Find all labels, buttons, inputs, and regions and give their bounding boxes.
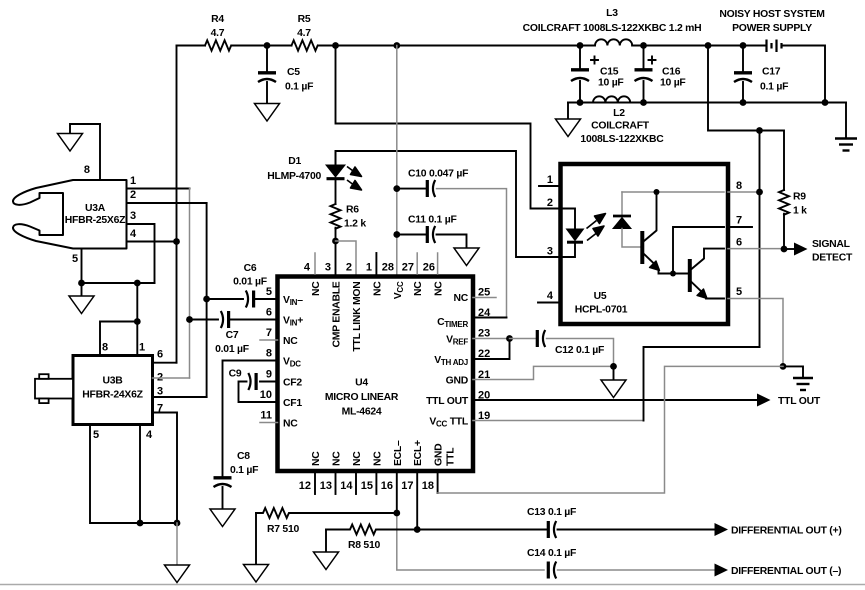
wire U5 pin 8 external (gray) <box>728 191 760 193</box>
node battery return <box>822 99 829 106</box>
earth ground right <box>835 103 857 151</box>
U4 pin 25 NC stub <box>473 297 496 299</box>
U5 pin numbers <box>547 174 742 302</box>
wire pin 24 CTIMER to C10 <box>473 317 507 319</box>
node C17 top <box>740 42 747 49</box>
svg-text:5: 5 <box>736 286 742 298</box>
node ECL- / R7 junction <box>393 510 400 517</box>
svg-text:6: 6 <box>736 237 742 249</box>
U4 left pin numbers <box>260 286 272 422</box>
svg-text:CMP ENABLE: CMP ENABLE <box>332 281 343 347</box>
wire U3A pin 2 riser <box>206 203 208 397</box>
svg-text:1008LS-122XKBC: 1008LS-122XKBC <box>580 134 664 145</box>
wire U5 pin 7 stub <box>728 226 752 228</box>
svg-text:DIFFERENTIAL OUT (+): DIFFERENTIAL OUT (+) <box>731 526 842 537</box>
node L3 left / C15 <box>577 42 584 49</box>
svg-text:0.1 µF: 0.1 µF <box>230 465 258 476</box>
node Vcc TTL tap <box>756 127 763 134</box>
capacitor C11 <box>397 215 467 249</box>
wire U3B pin 2 (gray) <box>153 377 190 379</box>
svg-text:1: 1 <box>547 174 553 186</box>
wire U3A pin 1 <box>127 188 190 190</box>
U5 pin 1 NC stub <box>539 185 561 187</box>
svg-text:C11 0.1 µF: C11 0.1 µF <box>408 215 457 226</box>
SIGNAL DETECT port arrow <box>784 239 853 264</box>
wire U5 pin 6 external (gray) <box>728 248 784 250</box>
svg-text:R6: R6 <box>346 205 359 216</box>
node VREF junction <box>506 335 513 342</box>
capacitor C16 <box>635 46 686 103</box>
node C12 ground junction <box>610 363 617 370</box>
svg-text:8: 8 <box>84 164 90 176</box>
wire R6 to TTL LINK MON pin 2 (gray) <box>336 241 357 277</box>
svg-text:C10 0.047 µF: C10 0.047 µF <box>408 169 468 180</box>
svg-text:6: 6 <box>157 349 163 361</box>
wire rail R5 to L3 <box>318 45 595 47</box>
svg-text:C13 0.1 µF: C13 0.1 µF <box>527 507 576 518</box>
svg-text:HCPL-0701: HCPL-0701 <box>575 305 628 316</box>
svg-text:4: 4 <box>130 228 137 240</box>
svg-text:R9: R9 <box>793 192 806 203</box>
svg-text:HLMP-4700: HLMP-4700 <box>267 171 321 182</box>
capacitor C12 <box>510 330 614 366</box>
resistor R7 <box>256 508 397 535</box>
svg-text:COILCRAFT 1008LS-122XKBC 1.2 m: COILCRAFT 1008LS-122XKBC 1.2 mH <box>523 23 702 34</box>
svg-text:8: 8 <box>266 348 272 360</box>
ground below C8 <box>210 509 235 527</box>
node C7 junction <box>186 316 193 323</box>
svg-text:NC: NC <box>311 451 322 466</box>
wire pin 23 VREF (gray) <box>473 338 510 340</box>
svg-text:CF2: CF2 <box>283 378 302 389</box>
svg-text:R4: R4 <box>211 14 224 25</box>
svg-text:4: 4 <box>304 262 311 274</box>
ground below C11 <box>454 248 479 266</box>
svg-text:1: 1 <box>139 342 145 354</box>
svg-text:7: 7 <box>266 327 272 339</box>
wire U3A pin 2 <box>127 202 207 204</box>
svg-text:11: 11 <box>260 410 272 422</box>
svg-text:0.01 µF: 0.01 µF <box>215 344 249 355</box>
earth ground near TTL OUT <box>783 366 813 390</box>
wire Vcc TTL vertical <box>759 131 761 348</box>
wire U3A pin 8 to ground <box>99 124 101 180</box>
svg-text:27: 27 <box>402 262 414 274</box>
svg-text:8: 8 <box>736 180 742 192</box>
wire GND TTL pin 18 route (gray) <box>438 366 783 493</box>
svg-text:4.7: 4.7 <box>211 28 225 39</box>
transistor Q1 <box>642 192 673 274</box>
wire U3A pin 3 <box>127 224 155 283</box>
svg-text:1: 1 <box>366 262 372 274</box>
svg-text:POWER SUPPLY: POWER SUPPLY <box>732 23 812 34</box>
svg-text:1.2 k: 1.2 k <box>344 219 366 230</box>
svg-text:10 µF: 10 µF <box>598 78 624 89</box>
U4 left pin labels <box>283 295 303 430</box>
svg-text:28: 28 <box>382 262 394 274</box>
svg-text:6: 6 <box>266 307 272 319</box>
svg-text:9: 9 <box>266 369 272 381</box>
wire U3A pin 1 riser (gray) <box>189 189 191 379</box>
svg-text:NC: NC <box>453 293 468 304</box>
node pin 5 ground junction <box>780 363 787 370</box>
svg-text:4: 4 <box>146 429 153 441</box>
svg-text:TTL LINK MON: TTL LINK MON <box>352 282 363 352</box>
svg-text:NC: NC <box>311 281 322 296</box>
svg-text:18: 18 <box>422 480 434 492</box>
node U3A pin 4 tap <box>173 238 180 245</box>
svg-text:NC: NC <box>413 281 424 296</box>
ground below R8 <box>314 530 339 570</box>
svg-text:5: 5 <box>266 286 272 298</box>
TTL OUT port arrow <box>757 394 821 408</box>
wire rail to U5 pin2 feed <box>336 46 561 209</box>
svg-text:C9: C9 <box>229 369 242 380</box>
svg-text:C6: C6 <box>244 263 257 274</box>
resistor R8 <box>326 525 417 552</box>
wire lower filtered rail <box>568 102 846 104</box>
node L3 right / C16 <box>640 42 647 49</box>
wire U3B pin 6 <box>153 362 177 364</box>
wire ECL- pin 16 riser <box>397 471 544 570</box>
svg-text:C8: C8 <box>237 451 250 462</box>
svg-text:COILCRAFT: COILCRAFT <box>591 121 650 132</box>
svg-text:TTL OUT: TTL OUT <box>778 396 821 407</box>
inductor L3 <box>523 8 702 46</box>
resistor R6 <box>331 204 367 277</box>
svg-text:TTL: TTL <box>446 447 457 466</box>
U4 bottom pin stubs NC <box>315 471 376 494</box>
capacitor C6 <box>207 263 278 308</box>
svg-text:10: 10 <box>260 389 272 401</box>
U4 bottom pin numbers <box>299 480 434 492</box>
U4 right pin labels <box>426 293 469 429</box>
wire pin 19 Vcc TTL (gray then black) <box>473 347 760 421</box>
wire rail L3 to battery <box>632 45 766 47</box>
svg-text:R5: R5 <box>298 14 311 25</box>
node C17 bottom <box>740 99 747 106</box>
svg-text:NC: NC <box>332 451 343 466</box>
node riser junction at rail <box>705 42 712 49</box>
svg-text:1: 1 <box>130 175 136 187</box>
wire U3B pin 4 <box>139 425 141 524</box>
node Q1 emitter / Q2 base / pin 7 <box>670 271 676 277</box>
U4 top pin labels rotated <box>311 281 445 352</box>
svg-text:DETECT: DETECT <box>812 253 853 264</box>
svg-text:15: 15 <box>361 480 373 492</box>
svg-text:NC: NC <box>372 451 383 466</box>
U5 internal rail to pin 8 (gray) <box>622 191 724 193</box>
svg-text:3: 3 <box>130 210 136 222</box>
ground below C12 <box>601 366 626 397</box>
node U3B pin 8 tap <box>134 318 141 325</box>
svg-text:ML-4624: ML-4624 <box>342 407 382 418</box>
node rail Vcc riser <box>393 42 400 49</box>
U4 pin 7 NC stub <box>260 339 278 341</box>
wire Vcc riser pin 28 (gray) <box>396 46 398 277</box>
node U3B pin7 junction <box>174 520 181 527</box>
svg-text:U3A: U3A <box>85 203 106 214</box>
node C11 tap <box>393 231 400 238</box>
svg-text:HFBR-24X6Z: HFBR-24X6Z <box>82 390 143 401</box>
capacitor C5 <box>258 46 313 104</box>
wire U3A pin 4 <box>127 241 177 243</box>
svg-text:U4: U4 <box>355 378 368 389</box>
U4 right pin numbers <box>478 287 491 423</box>
svg-text:NC: NC <box>283 336 298 347</box>
LED D1 <box>267 151 361 204</box>
svg-text:TTL OUT: TTL OUT <box>426 396 469 407</box>
wire D1 anode to U5 pin 3 <box>336 151 561 257</box>
ground below R7 <box>244 513 269 582</box>
capacitor C10 <box>397 169 507 318</box>
U4 pin 11 NC stub <box>260 422 278 424</box>
svg-text:0.1 µF: 0.1 µF <box>760 82 788 93</box>
ground below U3A pin 5 <box>69 283 94 314</box>
wire to bottom ground (gray) <box>176 523 178 565</box>
svg-text:8: 8 <box>102 342 108 354</box>
battery noisy host system power supply <box>719 9 824 52</box>
wire U3B pin 3 <box>153 396 207 398</box>
node U3B pin1 riser junction <box>134 280 141 287</box>
wire U3B pin 5 <box>90 425 177 524</box>
svg-text:5: 5 <box>72 253 78 265</box>
resistor R4 <box>205 14 231 51</box>
svg-text:GND: GND <box>434 443 445 466</box>
svg-text:5: 5 <box>93 429 99 441</box>
svg-text:U5: U5 <box>594 291 607 302</box>
svg-text:HFBR-25X6Z: HFBR-25X6Z <box>65 215 126 226</box>
svg-text:4: 4 <box>547 290 554 302</box>
svg-text:D1: D1 <box>288 156 301 167</box>
svg-text:2: 2 <box>130 189 136 201</box>
svg-text:2: 2 <box>547 197 553 209</box>
wire host riser to R9 feed <box>708 46 784 191</box>
svg-text:3: 3 <box>547 246 553 258</box>
capacitor C9 <box>229 369 278 403</box>
U4 top pin stubs <box>315 253 438 274</box>
svg-text:C5: C5 <box>287 67 300 78</box>
wire U5 pin 5 external (gray) <box>728 299 783 367</box>
capacitor C8 <box>214 361 278 510</box>
svg-text:NC: NC <box>434 281 445 296</box>
svg-text:ECL+: ECL+ <box>413 440 424 466</box>
optical receiver U3A <box>13 164 137 265</box>
ground below C5 <box>255 104 280 122</box>
optocoupler U5 HCPL-0701 <box>561 164 729 324</box>
wire pin 7 internal <box>673 227 724 274</box>
svg-text:SIGNAL: SIGNAL <box>812 239 851 250</box>
ground top left <box>58 124 101 151</box>
ground bottom left of U3B <box>165 565 190 583</box>
svg-text:GND: GND <box>446 376 469 387</box>
wire ECL+ pin 17 riser <box>416 471 418 530</box>
capacitor C17 <box>734 46 788 103</box>
node U3A pin5 ground junction <box>78 280 85 287</box>
svg-text:NC: NC <box>283 419 298 430</box>
svg-text:23: 23 <box>478 328 490 340</box>
node L2 right <box>640 99 647 106</box>
svg-text:R8 510: R8 510 <box>348 540 380 551</box>
svg-text:C7: C7 <box>226 330 239 341</box>
wire battery right down to lower rail <box>783 46 826 103</box>
svg-text:VCC TTL: VCC TTL <box>429 417 469 429</box>
node rail to D1 feed <box>332 42 339 49</box>
svg-text:16: 16 <box>381 480 393 492</box>
node ECL+ / R8 junction <box>414 526 421 533</box>
node C5 junction <box>264 42 271 49</box>
svg-text:CF1: CF1 <box>283 398 302 409</box>
connector plug on U3B <box>35 374 73 403</box>
svg-text:3: 3 <box>325 262 331 274</box>
svg-text:C16: C16 <box>662 67 681 78</box>
svg-text:26: 26 <box>423 262 435 274</box>
svg-text:L2: L2 <box>613 108 625 119</box>
svg-text:MICRO LINEAR: MICRO LINEAR <box>325 392 399 403</box>
node internal rail junction <box>654 189 660 195</box>
resistor R5 <box>292 14 318 51</box>
svg-text:NC: NC <box>372 281 383 296</box>
resistor R9 <box>779 190 807 249</box>
capacitor C7 <box>190 311 278 355</box>
node R6 bottom <box>332 238 339 245</box>
U5 internal LED <box>561 209 606 258</box>
svg-text:L3: L3 <box>606 8 618 19</box>
svg-text:4.7: 4.7 <box>297 28 311 39</box>
node signal detect junction <box>781 246 788 253</box>
wire pin 20 TTL OUT <box>473 399 757 401</box>
node L2 left <box>577 99 584 106</box>
svg-text:10 µF: 10 µF <box>660 78 686 89</box>
ground at lower rail left <box>556 103 581 137</box>
inductor L2 <box>580 96 664 145</box>
svg-text:7: 7 <box>736 215 742 227</box>
node U3B pin4 junction <box>137 520 144 527</box>
optical transmitter U3B <box>73 342 163 442</box>
capacitor C15 <box>571 46 624 103</box>
svg-text:13: 13 <box>320 480 332 492</box>
DIFFERENTIAL OUT (+) port arrow <box>715 523 842 537</box>
svg-text:C14 0.1 µF: C14 0.1 µF <box>527 548 576 559</box>
wire U3A pin 5 tie bar <box>82 249 155 283</box>
svg-text:C17: C17 <box>762 67 781 78</box>
capacitor C13 <box>417 507 714 538</box>
wire U3B pin 7 <box>153 413 178 524</box>
svg-text:U3B: U3B <box>102 376 123 387</box>
node C10 tap <box>393 185 400 192</box>
wire U3B pin1/pin8 riser <box>136 283 138 356</box>
IC U4 ML-4624 <box>278 277 474 472</box>
svg-text:0.1 µF: 0.1 µF <box>285 82 313 93</box>
page footer rule <box>0 584 865 586</box>
svg-text:0.01 µF: 0.01 µF <box>233 277 267 288</box>
svg-text:12: 12 <box>299 480 311 492</box>
svg-text:DIFFERENTIAL OUT (–): DIFFERENTIAL OUT (–) <box>731 566 841 577</box>
svg-text:C15: C15 <box>600 67 619 78</box>
node C6 junction <box>203 296 210 303</box>
capacitor C14 <box>527 548 715 579</box>
svg-text:1 k: 1 k <box>793 206 807 217</box>
wire rail R4 to R5 <box>232 45 292 47</box>
wire U3B pin 8 jog <box>100 322 137 356</box>
svg-text:2: 2 <box>346 262 352 274</box>
svg-text:NC: NC <box>352 451 363 466</box>
wire top supply rail left segment <box>177 45 206 47</box>
transistor Q2 <box>690 249 724 299</box>
U5 internal photodiode (gray leads) <box>613 192 641 247</box>
svg-text:C12 0.1 µF: C12 0.1 µF <box>555 345 604 356</box>
wire pin 21 GND jog (gray) <box>473 366 614 379</box>
U4 top pin numbers <box>304 262 435 274</box>
svg-text:ECL–: ECL– <box>393 440 404 466</box>
svg-text:NOISY HOST SYSTEM: NOISY HOST SYSTEM <box>719 9 824 20</box>
U4 bottom pin labels rotated <box>311 440 457 466</box>
wire pin 22 VTH ADJ tie to VREF <box>473 339 510 360</box>
wire left riser from rail to U3B pin 6 <box>176 46 178 363</box>
svg-text:R7 510: R7 510 <box>267 524 299 535</box>
svg-text:25: 25 <box>478 287 490 299</box>
svg-text:3: 3 <box>157 386 163 398</box>
DIFFERENTIAL OUT (-) port arrow <box>715 564 842 578</box>
U5 pin 4 NC stub <box>538 302 561 304</box>
node pin 8 to Vcc TTL riser <box>756 189 763 196</box>
svg-text:17: 17 <box>401 480 413 492</box>
svg-text:14: 14 <box>340 480 353 492</box>
